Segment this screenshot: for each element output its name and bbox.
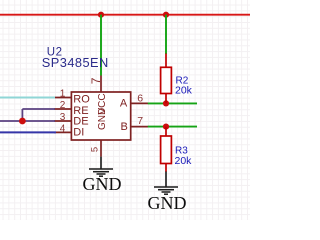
svg-text:GND: GND — [83, 174, 122, 194]
svg-text:20k: 20k — [175, 85, 193, 97]
svg-text:7: 7 — [89, 77, 103, 84]
svg-text:GND: GND — [148, 193, 187, 213]
svg-text:B: B — [121, 121, 128, 133]
svg-text:6: 6 — [137, 92, 143, 104]
svg-text:SP3485EN: SP3485EN — [42, 55, 109, 70]
svg-text:7: 7 — [137, 115, 143, 127]
svg-text:GND: GND — [97, 108, 108, 130]
svg-text:2: 2 — [60, 100, 66, 111]
svg-text:4: 4 — [60, 123, 66, 134]
svg-text:DI: DI — [73, 126, 84, 138]
svg-text:RO: RO — [73, 94, 90, 106]
svg-text:3: 3 — [60, 112, 66, 123]
svg-text:A: A — [120, 97, 128, 109]
svg-text:5: 5 — [89, 147, 100, 152]
svg-text:20k: 20k — [175, 155, 193, 167]
svg-text:1: 1 — [60, 88, 66, 99]
